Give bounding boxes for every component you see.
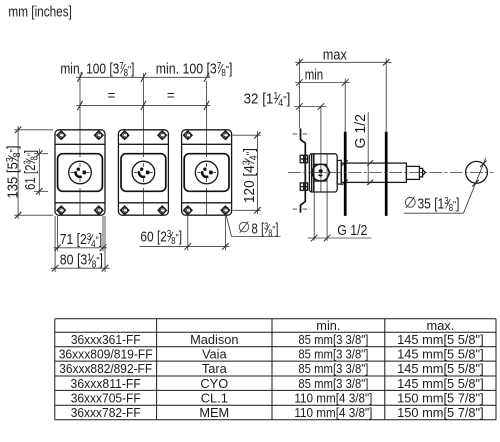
shaft step: [406, 166, 419, 179]
dimension 32 line: [294, 103, 327, 110]
plate 3 (right escutcheon): [182, 130, 232, 215]
dimension 61 extension lines: [34, 153, 48, 155]
svg-text:85 mm[3 3/8"]: 85 mm[3 3/8"]: [298, 376, 368, 391]
svg-text:145 mm[5 5/8"]: 145 mm[5 5/8"]: [397, 361, 484, 376]
svg-text:145 mm[5 5/8"]: 145 mm[5 5/8"]: [397, 376, 484, 391]
leader for dia 35: [404, 158, 487, 213]
centerline plate 1: [79, 73, 81, 157]
hex nut spindle crescent: [319, 174, 323, 177]
table row 6: MEM: [71, 405, 484, 420]
valve centre extension line (for 32 dim): [320, 107, 322, 192]
shaft tip: [419, 168, 425, 176]
svg-text:MEM: MEM: [199, 405, 229, 420]
svg-text:85 mm[3 3/8"]: 85 mm[3 3/8"]: [298, 347, 368, 362]
svg-text:min: min: [305, 67, 324, 84]
svg-text:max: max: [323, 46, 347, 63]
svg-text:145 mm[5 5/8"]: 145 mm[5 5/8"]: [397, 347, 484, 362]
svg-text:max.: max.: [427, 318, 455, 333]
svg-text:36xxx811-FF: 36xxx811-FF: [71, 376, 141, 391]
svg-text:mm [inches]: mm [inches]: [8, 4, 72, 21]
table row 3: Tara: [59, 361, 483, 376]
svg-text:G 1/2: G 1/2: [337, 222, 367, 239]
centerline plate 3: [206, 81, 208, 157]
thread ticks at G1/2 leader: [367, 160, 373, 166]
svg-text:150 mm[5 7/8"]: 150 mm[5 7/8"]: [397, 390, 484, 405]
bracket top screw: [300, 155, 307, 162]
wall line max (thick): [385, 132, 388, 216]
dimension min.100 line 1 (top, spans plate centers): [76, 73, 210, 82]
svg-text:Madison: Madison: [190, 332, 238, 347]
hex nut spindle dot: [319, 169, 323, 173]
svg-text:G 1/2: G 1/2: [352, 114, 369, 149]
dimension 120 line: [254, 131, 261, 214]
leader line for screw hole diameter 8: [226, 214, 232, 237]
svg-text:min. 100 [37⁄8"]: min. 100 [37⁄8"]: [60, 60, 134, 79]
table row 1: Madison: [71, 332, 484, 347]
dimension 71 line: [54, 245, 108, 252]
svg-text:Tara: Tara: [202, 361, 228, 376]
valve body: [309, 154, 337, 192]
dimension max line: [295, 59, 391, 66]
plate 2 (middle escutcheon): [118, 130, 168, 215]
plate 1 (left escutcheon): [55, 130, 105, 215]
G 1/2 vertical leader (thread size): [367, 112, 369, 185]
table row 2: Vaia: [59, 347, 484, 362]
diameter symbol for 8: [239, 221, 249, 233]
svg-text:85 mm[3 3/8"]: 85 mm[3 3/8"]: [298, 361, 368, 376]
dimension 61 line: [36, 149, 43, 196]
dimension 120 extension lines: [233, 134, 261, 136]
dimension 71 extension lines: [57, 216, 59, 251]
G 1/2 bottom shelf line: [308, 235, 372, 242]
valve body back plate lines: [311, 154, 313, 192]
hex inscribed circle: [312, 164, 329, 181]
extension line at wall bracket face: [298, 59, 300, 129]
svg-text:=: =: [167, 88, 175, 103]
svg-text:36xxx882/892-FF: 36xxx882/892-FF: [59, 361, 152, 376]
svg-text:36xxx705-FF: 36xxx705-FF: [71, 390, 141, 405]
threaded shaft: [341, 163, 406, 182]
table row 4: CYO: [71, 376, 484, 391]
svg-text:Vaia: Vaia: [202, 347, 228, 362]
svg-text:CYO: CYO: [200, 376, 228, 391]
svg-text:85 mm[3 3/8"]: 85 mm[3 3/8"]: [298, 332, 368, 347]
svg-text:min. 100 [37⁄8"]: min. 100 [37⁄8"]: [156, 60, 233, 79]
svg-text:145 mm[5 5/8"]: 145 mm[5 5/8"]: [397, 332, 484, 347]
svg-text:=: =: [108, 88, 116, 103]
dimension 80 line: [51, 265, 110, 272]
dimension 60 line: [140, 243, 230, 250]
svg-text:36xxx809/819-FF: 36xxx809/819-FF: [59, 347, 153, 362]
bracket bottom hole centerline (dash-dot): [293, 208, 310, 210]
dimension 135 extension lines: [14, 129, 53, 131]
table row 5: CL.1: [71, 390, 484, 405]
wall line min (thick): [344, 132, 347, 216]
side view: wall mounting bracket profile: [301, 128, 306, 212]
svg-text:110 mm[4 3/8"]: 110 mm[4 3/8"]: [294, 390, 372, 405]
bracket bottom screw: [300, 183, 307, 190]
diameter symbol for 35: [405, 197, 415, 209]
extension above min wall line: [344, 79, 346, 132]
svg-text:36xxx782-FF: 36xxx782-FF: [71, 405, 141, 420]
svg-text:36xxx361-FF: 36xxx361-FF: [71, 332, 141, 347]
horizontal centerline of valve: [288, 172, 494, 174]
svg-text:CL.1: CL.1: [201, 390, 228, 405]
thread ticks near flange: [342, 160, 348, 166]
svg-text:110 mm[4 3/8"]: 110 mm[4 3/8"]: [294, 405, 372, 420]
dimension min line: [295, 79, 349, 86]
dimension 135 line: [15, 126, 22, 219]
handle rosette circle dia 35: [466, 161, 488, 183]
centerline plate 2: [142, 73, 144, 157]
valve body inner pipe lines (G 1/2 inlet extension): [313, 154, 315, 240]
bracket top hole centerline (dash-dot): [293, 133, 310, 135]
dimension 80 extension lines: [54, 216, 56, 272]
svg-text:150 mm[5 7/8"]: 150 mm[5 7/8"]: [397, 405, 484, 420]
product table: [55, 319, 496, 420]
svg-text:min.: min.: [316, 318, 340, 333]
extension above max wall line: [385, 59, 387, 132]
dimension equality line 2 with = =: [76, 101, 210, 110]
flange: [337, 160, 341, 184]
dimension 60 extension lines (from plate-3 screws): [187, 214, 189, 251]
hex nut: [311, 164, 330, 181]
